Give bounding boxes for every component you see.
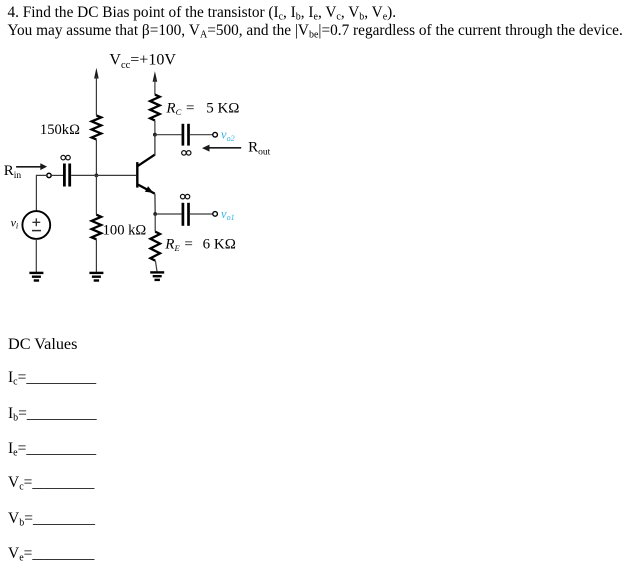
wire base [96, 174, 136, 176]
svg-text:RC = 5 KΩ: RC = 5 KΩ [165, 101, 239, 118]
svg-text:vi: vi [11, 215, 19, 230]
svg-text:150kΩ: 150kΩ [40, 122, 80, 138]
Vcc arrow left rail [94, 68, 99, 116]
node collector junction dot [153, 133, 157, 137]
wire C2 to vo2 terminal [190, 134, 213, 136]
wire source to ground [35, 239, 37, 272]
infinity label C1 [180, 194, 189, 199]
svg-text:vo1: vo1 [221, 207, 235, 222]
wire emitter down [154, 194, 156, 214]
wire input circle to C3 [51, 174, 63, 176]
header line 1 [8, 4, 623, 40]
source V1 circle [22, 211, 50, 239]
item Ie [8, 441, 96, 457]
source V1 minus sign [32, 230, 41, 232]
terminal input circle [47, 173, 51, 177]
infinity label C2 [182, 151, 191, 156]
wire RC to collector node [154, 121, 156, 135]
infinity label C3 [61, 155, 70, 160]
wire emitter node to C1 [155, 213, 181, 215]
svg-text:100 kΩ: 100 kΩ [103, 222, 147, 238]
ground G2 [89, 273, 103, 281]
item Ve [8, 546, 94, 562]
svg-text:Rout: Rout [248, 140, 271, 158]
wire input circle to source [36, 175, 46, 211]
Vcc arrow right rail [153, 71, 158, 94]
wire 150k to base node [95, 140, 97, 176]
DC values heading [8, 336, 77, 352]
wire 100k to ground [95, 239, 97, 272]
Rout arrow [202, 145, 241, 152]
wire emitter node to RE [154, 214, 156, 232]
terminal vo1 circle [213, 212, 218, 217]
capacitor C3 [64, 164, 69, 187]
capacitor C2 [183, 124, 189, 146]
transistor Q1 collector stroke [137, 155, 155, 167]
wire collector node to C2 [155, 134, 182, 136]
item Vb [8, 511, 95, 527]
transistor Q1 emitter stroke [137, 184, 155, 194]
item Ic [8, 370, 96, 386]
item Vc [8, 475, 94, 491]
node emitter junction dot [153, 212, 157, 216]
wire C1 to vo1 terminal [190, 213, 213, 215]
item Ib [8, 406, 97, 422]
resistor RC 5k [150, 95, 160, 121]
capacitor C1 [183, 203, 189, 226]
resistor R1 150k [92, 115, 102, 139]
source V1 plus sign [32, 218, 40, 226]
svg-text:Vcc=+10V: Vcc=+10V [109, 52, 176, 71]
wire C3 to base node [71, 174, 96, 176]
ground G3 [150, 272, 164, 280]
wire collector up [154, 135, 156, 156]
resistor RE 6k [150, 232, 160, 261]
svg-text:vo2: vo2 [221, 128, 235, 143]
wire base node to 100k [95, 175, 97, 214]
Rin arrow [16, 163, 47, 170]
svg-text:RE = 6 KΩ: RE = 6 KΩ [164, 236, 236, 253]
node base junction dot [95, 174, 99, 178]
transistor Q1 emitter arrowhead [145, 186, 154, 193]
wire RE to ground [155, 261, 157, 272]
ground G1 [29, 273, 43, 281]
transistor Q1 base bar [136, 162, 138, 188]
svg-text:Rin: Rin [4, 163, 22, 181]
resistor R2 100k [92, 215, 102, 240]
terminal vo2 circle [213, 132, 218, 137]
